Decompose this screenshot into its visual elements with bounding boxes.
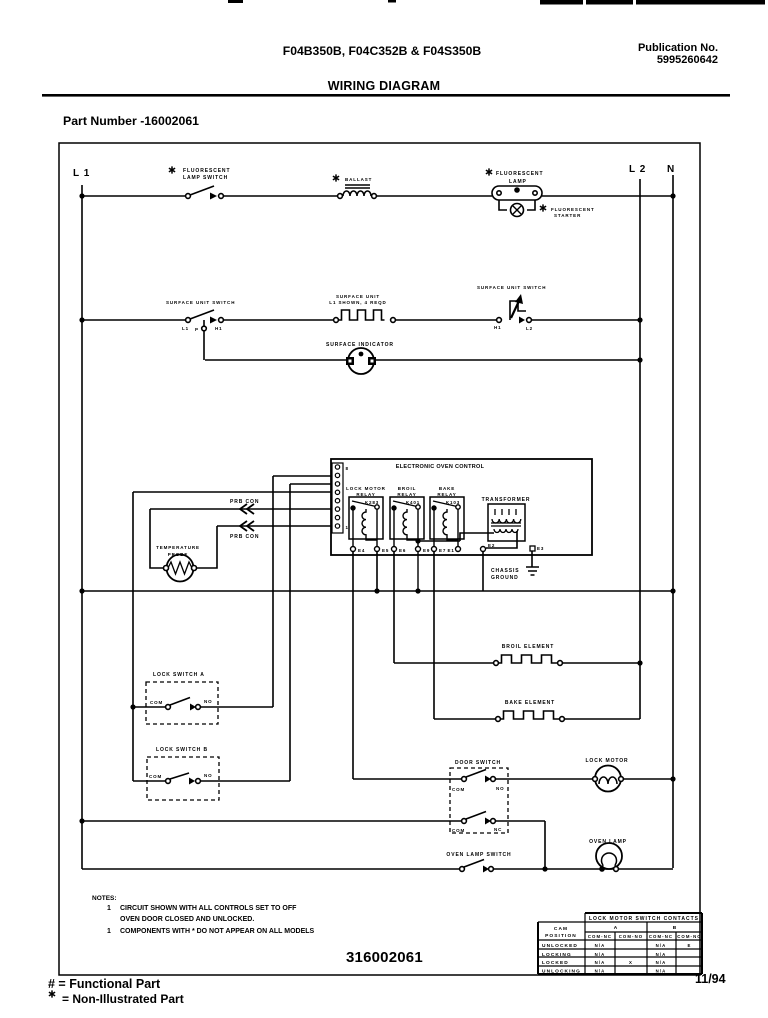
svg-text:L 2: L 2 xyxy=(629,164,646,175)
svg-text:E4: E4 xyxy=(358,548,365,553)
svg-text:OVEN LAMP: OVEN LAMP xyxy=(589,839,627,845)
svg-text:STARTER: STARTER xyxy=(554,213,581,218)
svg-text:LOCKED: LOCKED xyxy=(542,960,569,966)
svg-text:UNLOCKED: UNLOCKED xyxy=(542,943,578,949)
svg-text:N/A: N/A xyxy=(595,952,606,957)
svg-text:SURFACE UNIT SWITCH: SURFACE UNIT SWITCH xyxy=(477,285,546,290)
svg-text:K283: K283 xyxy=(365,500,379,505)
svg-text:K401: K401 xyxy=(406,500,420,505)
svg-text:COM: COM xyxy=(452,828,465,833)
svg-text:E9: E9 xyxy=(423,548,430,553)
svg-text:L 1: L 1 xyxy=(73,168,90,179)
svg-text:NO: NO xyxy=(204,699,213,704)
svg-text:PROBE: PROBE xyxy=(168,552,189,557)
svg-text:COM: COM xyxy=(150,700,163,705)
svg-text:POSITION: POSITION xyxy=(545,933,577,939)
svg-text:H1: H1 xyxy=(494,325,502,330)
svg-text:X: X xyxy=(629,960,633,965)
svg-text:COM-NC: COM-NC xyxy=(649,934,673,939)
svg-text:BAKE: BAKE xyxy=(439,486,455,491)
svg-text:NOTES:: NOTES: xyxy=(92,895,117,902)
svg-text:B: B xyxy=(673,925,678,931)
svg-text:LOCKING: LOCKING xyxy=(542,952,572,958)
svg-text:Publication No.: Publication No. xyxy=(638,42,718,54)
svg-text:E2: E2 xyxy=(488,543,495,548)
svg-text:K103: K103 xyxy=(446,500,460,505)
svg-text:TEMPERATURE: TEMPERATURE xyxy=(156,545,200,550)
svg-text:N/A: N/A xyxy=(656,960,667,965)
svg-text:P: P xyxy=(195,327,199,332)
svg-text:COM: COM xyxy=(452,787,465,792)
svg-text:OVEN DOOR CLOSED AND UNLOCKED.: OVEN DOOR CLOSED AND UNLOCKED. xyxy=(120,916,254,923)
svg-text:= Non-Illustrated Part: = Non-Illustrated Part xyxy=(62,992,184,1006)
svg-text:PRB CON: PRB CON xyxy=(230,534,259,540)
svg-text:BALLAST: BALLAST xyxy=(345,177,372,182)
svg-text:PRB CON: PRB CON xyxy=(230,499,259,505)
svg-text:UNLOCKING: UNLOCKING xyxy=(542,969,581,975)
svg-text:OVEN LAMP SWITCH: OVEN LAMP SWITCH xyxy=(446,852,511,858)
svg-text:LOCK MOTOR SWITCH CONTACTS: LOCK MOTOR SWITCH CONTACTS xyxy=(589,916,699,922)
svg-text:LOCK SWITCH B: LOCK SWITCH B xyxy=(156,747,208,753)
svg-text:N/A: N/A xyxy=(595,943,606,948)
svg-text:RELAY: RELAY xyxy=(437,492,456,497)
svg-text:N/A: N/A xyxy=(595,960,606,965)
svg-text:RELAY: RELAY xyxy=(356,492,375,497)
svg-text:N: N xyxy=(667,164,674,175)
svg-text:COMPONENTS WITH * DO NOT APPEA: COMPONENTS WITH * DO NOT APPEAR ON ALL M… xyxy=(120,928,315,935)
svg-text:N/A: N/A xyxy=(656,969,667,974)
svg-text:FLUORESCENT: FLUORESCENT xyxy=(183,168,230,174)
svg-text:NO: NO xyxy=(496,786,505,791)
svg-text:RELAY: RELAY xyxy=(397,492,416,497)
svg-text:N/A: N/A xyxy=(656,952,667,957)
svg-text:BAKE ELEMENT: BAKE ELEMENT xyxy=(505,700,555,706)
svg-text:E7: E7 xyxy=(439,548,446,553)
svg-text:E3: E3 xyxy=(537,546,544,551)
svg-text:L2: L2 xyxy=(526,326,533,331)
svg-text:LAMP: LAMP xyxy=(509,179,527,185)
svg-text:L1 SHOWN, 4 REQD: L1 SHOWN, 4 REQD xyxy=(329,300,386,305)
svg-text:11/94: 11/94 xyxy=(695,972,726,986)
svg-text:NO: NO xyxy=(204,773,213,778)
svg-text:1: 1 xyxy=(107,905,111,912)
svg-text:WIRING DIAGRAM: WIRING DIAGRAM xyxy=(328,79,441,93)
svg-text:E5: E5 xyxy=(382,548,389,553)
svg-text:# = Functional Part: # = Functional Part xyxy=(48,977,161,991)
svg-text:Part Number -16002061: Part Number -16002061 xyxy=(63,114,199,128)
svg-text:E1: E1 xyxy=(448,548,455,553)
svg-text:CIRCUIT SHOWN WITH ALL CONTROL: CIRCUIT SHOWN WITH ALL CONTROLS SET TO O… xyxy=(120,905,297,912)
svg-text:316002061: 316002061 xyxy=(346,949,423,966)
svg-text:H1: H1 xyxy=(215,326,223,331)
svg-text:LOCK MOTOR: LOCK MOTOR xyxy=(346,486,386,491)
svg-text:LOCK SWITCH A: LOCK SWITCH A xyxy=(153,672,205,678)
svg-text:A: A xyxy=(614,925,619,931)
svg-text:FLUORESCENT: FLUORESCENT xyxy=(551,207,595,212)
svg-text:NC: NC xyxy=(494,827,502,832)
svg-text:LOCK MOTOR: LOCK MOTOR xyxy=(585,758,628,764)
svg-text:COM-NC: COM-NC xyxy=(588,934,612,939)
svg-text:FLUORESCENT: FLUORESCENT xyxy=(496,171,543,177)
svg-text:BROIL: BROIL xyxy=(398,486,417,491)
svg-text:E: E xyxy=(688,943,692,948)
svg-text:LAMP SWITCH: LAMP SWITCH xyxy=(183,175,228,181)
svg-text:L1: L1 xyxy=(182,326,189,331)
svg-text:ELECTRONIC OVEN CONTROL: ELECTRONIC OVEN CONTROL xyxy=(396,464,485,470)
svg-text:F04B350B, F04C352B & F04S350B: F04B350B, F04C352B & F04S350B xyxy=(283,44,482,58)
svg-text:SURFACE UNIT SWITCH: SURFACE UNIT SWITCH xyxy=(166,300,235,305)
svg-text:COM: COM xyxy=(149,774,162,779)
svg-text:CHASSIS: CHASSIS xyxy=(491,568,520,574)
svg-text:TRANSFORMER: TRANSFORMER xyxy=(482,497,531,503)
svg-text:1: 1 xyxy=(107,928,111,935)
svg-text:SURFACE UNIT: SURFACE UNIT xyxy=(336,294,380,299)
svg-text:COM-NO: COM-NO xyxy=(677,934,702,939)
svg-text:N/A: N/A xyxy=(595,969,606,974)
svg-text:E6: E6 xyxy=(399,548,406,553)
svg-text:BROIL ELEMENT: BROIL ELEMENT xyxy=(502,644,554,650)
svg-text:5995260642: 5995260642 xyxy=(657,54,718,66)
svg-text:GROUND: GROUND xyxy=(491,575,519,581)
svg-text:DOOR SWITCH: DOOR SWITCH xyxy=(455,760,501,766)
svg-text:N/A: N/A xyxy=(656,943,667,948)
svg-text:COM-NO: COM-NO xyxy=(619,934,644,939)
svg-text:CAM: CAM xyxy=(554,926,568,932)
svg-text:SURFACE INDICATOR: SURFACE INDICATOR xyxy=(326,342,394,348)
